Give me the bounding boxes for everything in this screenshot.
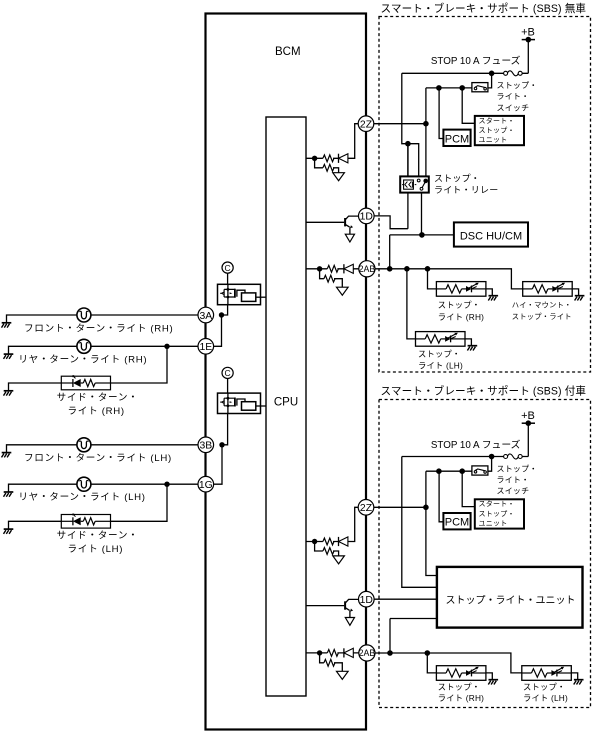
- svg-text:スイッチ: スイッチ: [497, 103, 530, 112]
- svg-text:1G: 1G: [199, 480, 213, 491]
- svg-text:ストップ・: ストップ・: [418, 349, 461, 359]
- svg-text:STOP 10 A フューズ: STOP 10 A フューズ: [431, 54, 521, 67]
- svg-text:ストップ・ライト: ストップ・ライト: [512, 312, 572, 321]
- svg-text:ライト (RH): ライト (RH): [438, 693, 484, 703]
- svg-text:PCM: PCM: [445, 517, 469, 529]
- svg-text:スタート・: スタート・: [479, 499, 515, 508]
- svg-text:STOP 10 A フューズ: STOP 10 A フューズ: [431, 438, 521, 451]
- svg-text:2AB: 2AB: [359, 264, 376, 274]
- svg-text:フロント・ターン・ライト (RH): フロント・ターン・ライト (RH): [24, 323, 173, 334]
- svg-text:C: C: [225, 368, 231, 378]
- svg-text:+B: +B: [521, 410, 535, 422]
- svg-text:ユニット: ユニット: [479, 137, 508, 144]
- svg-text:C: C: [225, 263, 231, 273]
- svg-text:リヤ・ターン・ライト (RH): リヤ・ターン・ライト (RH): [18, 355, 147, 366]
- svg-text:ストップ・: ストップ・: [479, 126, 515, 134]
- svg-text:1E: 1E: [199, 342, 212, 353]
- svg-text:ライト (RH): ライト (RH): [438, 312, 484, 322]
- svg-text:フロント・ターン・ライト (LH): フロント・ターン・ライト (LH): [24, 453, 172, 464]
- svg-text:CPU: CPU: [274, 396, 298, 408]
- svg-text:ストップ・: ストップ・: [497, 81, 538, 90]
- svg-text:ライト・リレー: ライト・リレー: [434, 185, 498, 195]
- svg-text:リヤ・ターン・ライト (LH): リヤ・ターン・ライト (LH): [18, 492, 145, 503]
- svg-text:ライト (LH): ライト (LH): [523, 693, 568, 703]
- svg-text:ライト・: ライト・: [497, 476, 530, 485]
- svg-text:ライト・: ライト・: [497, 92, 530, 101]
- svg-text:DSC HU/CM: DSC HU/CM: [460, 231, 522, 243]
- svg-text:スイッチ: スイッチ: [497, 487, 530, 496]
- svg-text:2AB: 2AB: [359, 648, 376, 658]
- svg-text:スマート・ブレーキ・サポート (SBS) 無車: スマート・ブレーキ・サポート (SBS) 無車: [381, 2, 587, 15]
- svg-text:スタート・: スタート・: [479, 116, 515, 125]
- svg-text:2Z: 2Z: [360, 503, 373, 514]
- svg-text:1D: 1D: [360, 212, 373, 223]
- svg-text:ライト (LH): ライト (LH): [418, 361, 463, 371]
- svg-text:ライト (RH): ライト (RH): [68, 406, 125, 417]
- svg-text:2Z: 2Z: [360, 120, 373, 131]
- svg-text:1D: 1D: [360, 595, 373, 606]
- svg-text:ライト (LH): ライト (LH): [68, 544, 124, 555]
- svg-text:スマート・ブレーキ・サポート (SBS) 付車: スマート・ブレーキ・サポート (SBS) 付車: [381, 385, 587, 398]
- svg-text:サイド・ターン・: サイド・ターン・: [57, 530, 139, 541]
- svg-text:ストップ・: ストップ・: [497, 464, 538, 473]
- svg-text:サイド・ターン・: サイド・ターン・: [57, 392, 139, 403]
- svg-text:+B: +B: [521, 27, 535, 39]
- svg-text:ストップ・: ストップ・: [523, 682, 566, 692]
- svg-text:ハイ・マウント・: ハイ・マウント・: [512, 301, 572, 310]
- svg-text:ストップ・: ストップ・: [438, 300, 481, 310]
- svg-text:ストップ・ライト・ユニット: ストップ・ライト・ユニット: [446, 594, 576, 606]
- svg-text:3A: 3A: [199, 311, 212, 322]
- svg-text:ストップ・: ストップ・: [479, 510, 515, 518]
- svg-text:ストップ・: ストップ・: [434, 174, 480, 184]
- svg-text:ユニット: ユニット: [479, 520, 508, 527]
- svg-text:PCM: PCM: [445, 133, 469, 145]
- svg-text:ストップ・: ストップ・: [438, 682, 481, 692]
- svg-text:BCM: BCM: [275, 46, 301, 58]
- svg-text:3B: 3B: [199, 441, 212, 452]
